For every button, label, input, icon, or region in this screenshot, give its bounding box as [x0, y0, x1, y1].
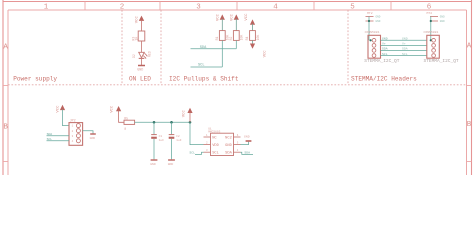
svg-text:R5: R5 [124, 117, 128, 121]
svg-text:1: 1 [72, 125, 74, 128]
svg-text:10K: 10K [256, 35, 260, 41]
svg-text:D2: D2 [132, 54, 136, 58]
supply VCC (shift resistor top) [245, 13, 255, 31]
svg-text:R4: R4 [245, 36, 249, 40]
svg-text:NC2: NC2 [225, 136, 232, 140]
svg-text:R1: R1 [215, 36, 219, 40]
junction (MT tie) [368, 20, 370, 22]
svg-text:1uF: 1uF [176, 139, 182, 142]
LED D2 (ON LED) [132, 51, 151, 59]
resistor R1 (SCL pullup) [215, 31, 230, 41]
wire rail to U1 VDD [190, 122, 204, 144]
svg-text:SDA: SDA [200, 46, 207, 50]
svg-text:STEMMA_I2C_QT: STEMMA_I2C_QT [424, 58, 459, 64]
connector J1 body [368, 35, 381, 58]
wire net GND (J1 to J2) [381, 39, 427, 41]
svg-text:GND: GND [382, 37, 388, 41]
wire main VCC rail [135, 121, 190, 123]
svg-text:ON LED: ON LED [129, 76, 151, 83]
svg-text:SDA: SDA [225, 152, 232, 156]
svg-text:1: 1 [206, 134, 208, 137]
svg-text:STEMMA/I2C Headers: STEMMA/I2C Headers [351, 76, 417, 83]
svg-text:C1: C1 [159, 135, 163, 138]
connector J1 pin MT2 [366, 20, 381, 23]
svg-text:VCC: VCC [230, 13, 234, 21]
op IC U1 body [211, 133, 234, 155]
ground GND (JP2) [90, 134, 96, 140]
supply VCC (pullup R1) [216, 13, 225, 30]
wire net SDA (J1 to J2) [381, 49, 427, 51]
ground GND (U1) [244, 135, 251, 141]
svg-text:10K: 10K [240, 35, 244, 41]
svg-text:2: 2 [72, 130, 74, 133]
svg-text:MT2: MT2 [367, 11, 373, 15]
svg-text:A: A [3, 44, 8, 52]
wire U1 GND pin to ground [241, 142, 249, 145]
resistor R3 (ON LED) [132, 31, 145, 41]
svg-text:SCL: SCL [402, 52, 408, 56]
svg-text:GND: GND [150, 162, 156, 166]
wire resistor to LED [141, 41, 143, 52]
frame row ticks [3, 86, 472, 162]
supply VCC (input, R5) [110, 105, 124, 122]
svg-text:GND: GND [168, 162, 174, 166]
junction (C2 tap) [170, 121, 173, 124]
svg-text:VCC: VCC [263, 50, 267, 58]
wire net SCL [191, 66, 223, 68]
svg-text:Power supply: Power supply [13, 76, 57, 83]
svg-text:SCL: SCL [198, 63, 204, 67]
frame column numbers [44, 4, 432, 12]
wire rail to C2 [171, 122, 173, 134]
wire C2 to ground [171, 139, 173, 160]
svg-text:SCL: SCL [212, 152, 219, 156]
junction (C1 tap) [153, 121, 156, 124]
svg-text:6: 6 [237, 134, 239, 137]
ground GND (C1) [150, 160, 157, 166]
wire JP2 pin2 to ground [83, 131, 93, 134]
wire net SDA [191, 48, 237, 50]
svg-text:VCC: VCC [136, 16, 140, 24]
connector J2 pin MT2 [430, 20, 445, 23]
svg-text:NC: NC [212, 136, 217, 140]
section divider dashed lines [8, 10, 467, 85]
connector JP2 body [69, 123, 83, 146]
capacitor C2 [169, 135, 182, 143]
junction (J2 MT tie) [430, 20, 432, 22]
svg-text:GND: GND [90, 136, 96, 140]
connector J2 pin MT1 [427, 11, 446, 19]
connector J1 pin MT1 [366, 11, 381, 19]
svg-text:3: 3 [206, 149, 208, 152]
op IC U1 pin 1 NC [204, 134, 218, 140]
junction (J2 pin1) [430, 39, 432, 41]
svg-text:RED: RED [148, 51, 152, 57]
connector J2 body [427, 35, 440, 58]
supply VCC arrow down (shift bottom) [250, 40, 268, 57]
wire LED to ground [141, 59, 143, 65]
wire SCL to U1 pin3 [195, 152, 204, 154]
wire C1 to ground [153, 139, 155, 160]
junction (J1 pin1) [370, 39, 372, 41]
wire VCC to JP2 pin1 [63, 109, 70, 125]
svg-text:B: B [467, 121, 472, 129]
net labels left set [382, 37, 388, 56]
svg-text:CONN5081: CONN5081 [424, 30, 439, 34]
frame row letters [3, 43, 471, 132]
supply VCC (U1) [183, 108, 193, 123]
svg-text:SCL: SCL [382, 52, 388, 56]
svg-text:GND: GND [440, 16, 445, 19]
op IC U1 pin 4 SDA [225, 149, 240, 155]
connector JP2 pin numbers [72, 125, 74, 143]
svg-text:1: 1 [44, 4, 49, 12]
svg-text:5: 5 [350, 4, 355, 12]
wire R2 to SDA [235, 40, 237, 48]
svg-text:CONN5081: CONN5081 [365, 30, 380, 34]
connector J1 pin circles [372, 38, 376, 57]
svg-text:STEMMA_I2C_QT: STEMMA_I2C_QT [364, 58, 399, 64]
svg-text:GND: GND [402, 37, 408, 41]
op IC U1 pin 6 NC2 [225, 134, 240, 140]
wire R1 to SCL [221, 40, 223, 67]
svg-text:GND: GND [244, 135, 250, 139]
op IC U1 pin 2 VDD [204, 142, 220, 148]
svg-text:VDD: VDD [212, 144, 219, 148]
svg-text:R2: R2 [229, 36, 233, 40]
svg-text:VCC: VCC [245, 13, 249, 21]
svg-text:VCC: VCC [57, 105, 61, 113]
supply VCC (ON LED) [136, 16, 145, 31]
op IC U1 pin 5 GND [225, 142, 240, 148]
wire SDA to JP2 pin3 [47, 135, 70, 137]
svg-text:4: 4 [273, 4, 278, 12]
frame outer border [3, 0, 472, 175]
svg-text:4: 4 [72, 140, 74, 143]
resistor R5 (series) [124, 117, 135, 132]
ground GND (C2) [168, 160, 175, 166]
resistor R4 (shift) [245, 31, 260, 41]
wire net SCL (J1 to J2) [381, 55, 427, 57]
svg-text:1K: 1K [135, 37, 139, 41]
supply VCC (JP2) [57, 105, 66, 113]
connector JP2 pin circles [76, 124, 80, 143]
capacitor C1 [151, 135, 164, 143]
svg-text:SDA: SDA [244, 150, 250, 154]
svg-text:V+: V+ [382, 42, 386, 46]
op IC U1 pin 3 SCL [204, 149, 219, 155]
wire rail to C1 [153, 122, 155, 134]
svg-text:VCC: VCC [110, 105, 114, 113]
svg-text:MT2: MT2 [427, 11, 433, 15]
resistor R2 (SDA pullup) [229, 31, 244, 41]
svg-text:SDA: SDA [382, 47, 388, 51]
frame inner border [8, 10, 467, 175]
wire SCL to JP2 pin4 [47, 140, 70, 142]
svg-text:0: 0 [124, 127, 126, 131]
svg-text:SDA: SDA [402, 47, 408, 51]
svg-text:GND: GND [376, 16, 381, 19]
svg-text:GND: GND [440, 20, 445, 23]
frame column ticks [85, 2, 391, 11]
svg-text:V+: V+ [402, 42, 406, 46]
supply VCC (pullup R2) [230, 13, 239, 30]
svg-text:C2: C2 [176, 135, 180, 138]
svg-text:SCL: SCL [189, 150, 195, 154]
svg-text:GND: GND [137, 69, 143, 73]
wire MT pins to J1 pin1 [368, 17, 370, 41]
wire net V+ (J1 to J2) [381, 44, 427, 46]
svg-text:2: 2 [206, 142, 208, 145]
svg-text:I2C Pullups & Shift: I2C Pullups & Shift [169, 76, 239, 83]
svg-text:1uF: 1uF [159, 139, 165, 142]
svg-text:3: 3 [196, 4, 201, 12]
svg-text:4: 4 [237, 149, 239, 152]
svg-text:VCC: VCC [216, 13, 220, 21]
svg-text:5: 5 [237, 142, 239, 145]
wire MT pins to J2 pin1 [430, 17, 432, 41]
wire U1 SDA pin out [241, 152, 254, 154]
svg-text:3: 3 [72, 135, 74, 138]
svg-text:B: B [3, 124, 8, 132]
svg-text:GND: GND [225, 144, 232, 148]
svg-text:VCC: VCC [183, 110, 187, 118]
connector J2 pin circles [432, 38, 436, 57]
ground GND (ON LED) [137, 66, 145, 73]
junction (VCC arrow tap) [189, 121, 192, 124]
net labels right set [402, 37, 408, 56]
svg-text:GND: GND [376, 20, 381, 23]
svg-text:A: A [467, 43, 472, 51]
